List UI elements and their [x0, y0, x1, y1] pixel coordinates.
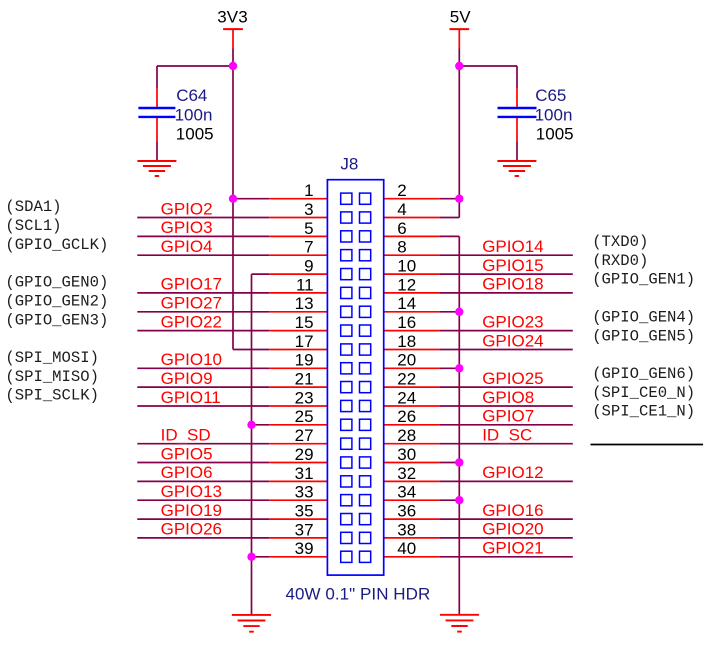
- net label GPIO7: [482, 407, 534, 426]
- pin 25 (J8 left): [269, 407, 327, 426]
- wire net pin 38: [440, 537, 573, 539]
- svg-text:GPIO26: GPIO26: [161, 520, 222, 539]
- svg-text:6: 6: [397, 219, 406, 238]
- ground (C65): [497, 161, 536, 176]
- net label ID_SC: [482, 426, 532, 445]
- svg-text:(RXD0): (RXD0): [592, 252, 648, 270]
- pin 20 (J8 right): [384, 351, 440, 370]
- net label GPIO6: [161, 463, 213, 482]
- svg-text:2: 2: [397, 181, 406, 200]
- wire 3V3 to C64: [157, 66, 233, 88]
- pin 5 (J8 left): [269, 219, 327, 238]
- svg-text:GPIO18: GPIO18: [482, 275, 543, 294]
- net label GPIO18: [482, 275, 543, 294]
- net label GPIO20: [482, 520, 543, 539]
- annotation (SDA1): [5, 198, 61, 216]
- junction GND pin25: [247, 421, 255, 429]
- ground (bottom right): [440, 615, 479, 632]
- annotation (SPI_SCLK): [5, 387, 99, 405]
- svg-text:23: 23: [295, 388, 314, 407]
- annotation (GPIO_GCLK): [5, 236, 108, 254]
- wire net pin 8: [440, 254, 573, 256]
- reference designator J8: [340, 154, 358, 173]
- pin 39 (J8 left): [269, 539, 327, 558]
- svg-text:27: 27: [295, 426, 314, 445]
- net label GPIO12: [482, 463, 543, 482]
- wire net pin 32: [440, 480, 573, 482]
- svg-text:34: 34: [397, 483, 416, 502]
- pin 1 (J8 left): [269, 181, 327, 200]
- pin 37 (J8 left): [269, 520, 327, 539]
- ground (C64): [137, 161, 176, 176]
- net label GPIO9: [161, 369, 213, 388]
- net label GPIO4: [161, 237, 213, 256]
- svg-text:21: 21: [295, 370, 314, 389]
- wire net pin 2: [440, 198, 460, 200]
- svg-text:32: 32: [397, 464, 416, 483]
- wire net pin 31: [137, 480, 269, 482]
- svg-text:GPIO8: GPIO8: [482, 388, 534, 407]
- svg-text:12: 12: [397, 275, 416, 294]
- svg-text:GPIO6: GPIO6: [161, 463, 213, 482]
- svg-text:36: 36: [397, 502, 416, 521]
- pin 33 (J8 left): [269, 483, 327, 502]
- wire net pin 16: [440, 330, 573, 332]
- svg-text:GPIO10: GPIO10: [161, 350, 222, 369]
- svg-text:16: 16: [397, 313, 416, 332]
- wire 5V vertical net: [458, 49, 460, 218]
- svg-text:(SPI_CE0_N): (SPI_CE0_N): [592, 384, 695, 402]
- net label GPIO2: [161, 199, 213, 218]
- pin 31 (J8 left): [269, 464, 327, 483]
- wire net pin 24: [440, 405, 573, 407]
- pin 15 (J8 left): [269, 313, 327, 332]
- svg-text:GPIO21: GPIO21: [482, 539, 543, 558]
- svg-text:3V3: 3V3: [217, 8, 248, 27]
- annotation (GPIO_GEN6): [592, 365, 695, 383]
- net label GPIO19: [161, 501, 222, 520]
- svg-text:3: 3: [304, 200, 313, 219]
- wire net pin 26: [440, 424, 573, 426]
- svg-text:33: 33: [295, 483, 314, 502]
- wire 5V to C65: [459, 66, 517, 88]
- pin 11 (J8 left): [269, 275, 327, 294]
- wire net pin 5: [137, 235, 269, 237]
- wire net pin 37: [137, 537, 269, 539]
- net label GPIO16: [482, 501, 543, 520]
- net label ID_SD: [161, 426, 211, 445]
- wire GND left vertical: [251, 274, 253, 615]
- pin 13 (J8 left): [269, 294, 327, 313]
- svg-text:13: 13: [295, 294, 314, 313]
- pin 26 (J8 right): [384, 407, 440, 426]
- net label GPIO5: [161, 444, 213, 463]
- annotation (GPIO_GEN1): [592, 271, 695, 289]
- svg-text:1: 1: [304, 181, 313, 200]
- capacitor C65: [498, 86, 574, 143]
- svg-text:(GPIO_GEN0): (GPIO_GEN0): [5, 274, 108, 292]
- power symbol 5V: [449, 8, 471, 49]
- svg-text:37: 37: [295, 520, 314, 539]
- svg-text:29: 29: [295, 445, 314, 464]
- pin 3 (J8 left): [269, 200, 327, 219]
- pin 23 (J8 left): [269, 388, 327, 407]
- wire net pin 14: [440, 311, 460, 313]
- annotation (GPIO_GEN3): [5, 311, 108, 329]
- pin 12 (J8 right): [384, 275, 440, 294]
- net label GPIO26: [161, 520, 222, 539]
- pin 36 (J8 right): [384, 502, 440, 521]
- svg-text:GPIO17: GPIO17: [161, 275, 222, 294]
- svg-text:(GPIO_GEN1): (GPIO_GEN1): [592, 271, 695, 289]
- junction 5V/C65: [455, 62, 463, 70]
- svg-text:100n: 100n: [535, 106, 573, 125]
- svg-text:100n: 100n: [175, 106, 213, 125]
- svg-text:GPIO9: GPIO9: [161, 369, 213, 388]
- wire net pin 35: [137, 518, 269, 520]
- svg-text:GPIO23: GPIO23: [482, 312, 543, 331]
- wire GND right vertical: [458, 236, 460, 614]
- svg-text:8: 8: [397, 238, 406, 257]
- power symbol 3V3: [217, 8, 248, 49]
- net label GPIO22: [161, 312, 222, 331]
- wire net pin 23: [137, 405, 269, 407]
- wire net pin 30: [440, 462, 460, 464]
- pin 19 (J8 left): [269, 351, 327, 370]
- pin 27 (J8 left): [269, 426, 327, 445]
- svg-text:GPIO11: GPIO11: [161, 388, 221, 407]
- svg-text:31: 31: [295, 464, 314, 483]
- svg-text:22: 22: [397, 370, 416, 389]
- pin 10 (J8 right): [384, 257, 440, 276]
- wire net pin 12: [440, 292, 573, 294]
- svg-text:GPIO19: GPIO19: [161, 501, 222, 520]
- svg-text:5: 5: [304, 219, 313, 238]
- svg-text:38: 38: [397, 520, 416, 539]
- junction 5V pin2: [455, 195, 463, 203]
- pin 35 (J8 left): [269, 502, 327, 521]
- net label GPIO15: [482, 256, 543, 275]
- pin 29 (J8 left): [269, 445, 327, 464]
- pin 34 (J8 right): [384, 483, 440, 502]
- wire net pin 29: [137, 462, 269, 464]
- wire net pin 10: [440, 273, 573, 275]
- net label GPIO24: [482, 331, 543, 350]
- wire net pin 25: [252, 424, 270, 426]
- svg-text:C65: C65: [535, 86, 566, 105]
- svg-text:5V: 5V: [450, 8, 472, 27]
- wire net pin 22: [440, 386, 573, 388]
- svg-text:ID_SC: ID_SC: [482, 426, 532, 445]
- svg-text:(SPI_MISO): (SPI_MISO): [5, 368, 99, 386]
- pin 6 (J8 right): [384, 219, 440, 238]
- pin 2 (J8 right): [384, 181, 440, 200]
- pin 4 (J8 right): [384, 200, 440, 219]
- capacitor C64: [138, 86, 213, 143]
- svg-text:10: 10: [397, 257, 416, 276]
- wire net pin 40: [440, 556, 573, 558]
- svg-text:GPIO27: GPIO27: [161, 294, 222, 313]
- svg-text:GPIO20: GPIO20: [482, 520, 543, 539]
- svg-text:GPIO4: GPIO4: [161, 237, 213, 256]
- wire net pin 33: [137, 499, 269, 501]
- annotation (SPI_MOSI): [5, 349, 99, 367]
- wire net pin 7: [137, 254, 269, 256]
- annotation (GPIO_GEN4): [592, 308, 695, 326]
- wire C64 to ground: [156, 141, 158, 161]
- svg-text:28: 28: [397, 426, 416, 445]
- ground (bottom left): [232, 615, 271, 632]
- svg-text:GPIO12: GPIO12: [482, 463, 543, 482]
- wire net pin 20: [440, 367, 460, 369]
- annotation (GPIO_GEN0): [5, 274, 108, 292]
- wire net pin 28: [440, 443, 573, 445]
- wire net pin 11: [137, 292, 269, 294]
- svg-text:1005: 1005: [176, 125, 214, 144]
- svg-text:GPIO24: GPIO24: [482, 331, 543, 350]
- wire net pin 19: [137, 367, 269, 369]
- svg-text:GPIO14: GPIO14: [482, 237, 543, 256]
- svg-text:7: 7: [304, 238, 313, 257]
- svg-text:(GPIO_GCLK): (GPIO_GCLK): [5, 236, 108, 254]
- net label GPIO14: [482, 237, 543, 256]
- pin 21 (J8 left): [269, 370, 327, 389]
- annotation (SPI_CE0_N): [592, 384, 695, 402]
- net label GPIO21: [482, 539, 543, 558]
- svg-text:1005: 1005: [536, 125, 574, 144]
- net label GPIO23: [482, 312, 543, 331]
- junction GND pin39: [247, 553, 255, 561]
- wire net pin 17: [233, 349, 269, 351]
- svg-text:(GPIO_GEN2): (GPIO_GEN2): [5, 293, 108, 311]
- pin 17 (J8 left): [269, 332, 327, 351]
- net label GPIO13: [161, 482, 222, 501]
- svg-text:GPIO13: GPIO13: [161, 482, 222, 501]
- wire 3V3 vertical net: [232, 49, 234, 350]
- wire net pin 1: [233, 198, 269, 200]
- wire net pin 21: [137, 386, 269, 388]
- svg-text:9: 9: [304, 257, 313, 276]
- svg-text:40: 40: [397, 539, 416, 558]
- pin 7 (J8 left): [269, 238, 327, 257]
- net label GPIO17: [161, 275, 222, 294]
- svg-text:15: 15: [295, 313, 314, 332]
- wire net pin 18: [440, 349, 573, 351]
- pin 14 (J8 right): [384, 294, 440, 313]
- svg-text:19: 19: [295, 351, 314, 370]
- svg-text:20: 20: [397, 351, 416, 370]
- net label GPIO11: [161, 388, 221, 407]
- svg-text:14: 14: [397, 294, 416, 313]
- annotation (GPIO_GEN5): [592, 327, 695, 345]
- wire net pin 15: [137, 330, 269, 332]
- pin 16 (J8 right): [384, 313, 440, 332]
- wire net pin 6: [440, 235, 460, 237]
- svg-text:4: 4: [397, 200, 406, 219]
- annotation (TXD0): [592, 233, 648, 251]
- svg-text:(SDA1): (SDA1): [5, 198, 61, 216]
- svg-text:ID_SD: ID_SD: [161, 426, 211, 445]
- svg-text:GPIO16: GPIO16: [482, 501, 543, 520]
- pin 9 (J8 left): [269, 257, 327, 276]
- svg-text:11: 11: [296, 275, 314, 294]
- svg-text:GPIO2: GPIO2: [161, 199, 213, 218]
- junction GND pin34: [455, 496, 463, 504]
- wire net pin 13: [137, 311, 269, 313]
- wire net pin 3: [137, 217, 269, 219]
- connector J8 body: [327, 180, 383, 575]
- pin 30 (J8 right): [384, 445, 440, 464]
- svg-text:(GPIO_GEN5): (GPIO_GEN5): [592, 327, 695, 345]
- annotation (GPIO_GEN2): [5, 293, 108, 311]
- svg-text:(GPIO_GEN3): (GPIO_GEN3): [5, 311, 108, 329]
- annotation (SPI_MISO): [5, 368, 99, 386]
- svg-text:(SCL1): (SCL1): [5, 217, 61, 235]
- svg-text:J8: J8: [340, 154, 358, 173]
- wire net pin 27: [137, 443, 269, 445]
- junction GND pin20: [455, 364, 463, 372]
- junction GND pin14: [455, 308, 463, 316]
- svg-text:26: 26: [397, 407, 416, 426]
- svg-text:24: 24: [397, 388, 416, 407]
- svg-text:GPIO25: GPIO25: [482, 369, 543, 388]
- svg-text:(SPI_SCLK): (SPI_SCLK): [5, 387, 99, 405]
- pin 38 (J8 right): [384, 520, 440, 539]
- pin 22 (J8 right): [384, 370, 440, 389]
- svg-text:18: 18: [397, 332, 416, 351]
- svg-text:(TXD0): (TXD0): [592, 233, 648, 251]
- annotation (SCL1): [5, 217, 61, 235]
- svg-text:GPIO7: GPIO7: [482, 407, 534, 426]
- svg-text:(GPIO_GEN4): (GPIO_GEN4): [592, 308, 695, 326]
- wire net pin 34: [440, 499, 460, 501]
- net label GPIO27: [161, 294, 222, 313]
- net label GPIO25: [482, 369, 543, 388]
- svg-text:30: 30: [397, 445, 416, 464]
- wire net pin 4: [440, 217, 460, 219]
- junction 3V3 pin1: [229, 195, 237, 203]
- wire net pin 36: [440, 518, 573, 520]
- svg-text:GPIO22: GPIO22: [161, 312, 222, 331]
- svg-text:40W 0.1" PIN HDR: 40W 0.1" PIN HDR: [286, 584, 431, 603]
- svg-text:C64: C64: [176, 86, 207, 105]
- svg-text:(GPIO_GEN6): (GPIO_GEN6): [592, 365, 695, 383]
- wire net pin 9: [252, 273, 270, 275]
- pin 18 (J8 right): [384, 332, 440, 351]
- junction 3V3/C64: [229, 62, 237, 70]
- junction GND pin30: [455, 458, 463, 466]
- svg-text:17: 17: [295, 332, 314, 351]
- svg-text:GPIO15: GPIO15: [482, 256, 543, 275]
- svg-text:35: 35: [295, 502, 314, 521]
- annotation (SPI_CE1_N): [592, 403, 695, 421]
- pin 24 (J8 right): [384, 388, 440, 407]
- pin 40 (J8 right): [384, 539, 440, 558]
- net label GPIO10: [161, 350, 222, 369]
- svg-text:GPIO5: GPIO5: [161, 444, 213, 463]
- value 40W 0.1&quot; PIN HDR: [286, 584, 431, 603]
- wire C65 to ground: [516, 141, 518, 161]
- annotation (RXD0): [592, 252, 648, 270]
- pin 32 (J8 right): [384, 464, 440, 483]
- svg-text:GPIO3: GPIO3: [161, 218, 213, 237]
- svg-text:(SPI_MOSI): (SPI_MOSI): [5, 349, 99, 367]
- svg-text:(SPI_CE1_N): (SPI_CE1_N): [592, 403, 695, 421]
- svg-text:39: 39: [295, 539, 314, 558]
- pin 28 (J8 right): [384, 426, 440, 445]
- svg-text:25: 25: [295, 407, 314, 426]
- wire net pin 39: [252, 556, 270, 558]
- net label GPIO8: [482, 388, 534, 407]
- net label GPIO3: [161, 218, 213, 237]
- pin 8 (J8 right): [384, 238, 440, 257]
- separator line: [591, 444, 703, 446]
